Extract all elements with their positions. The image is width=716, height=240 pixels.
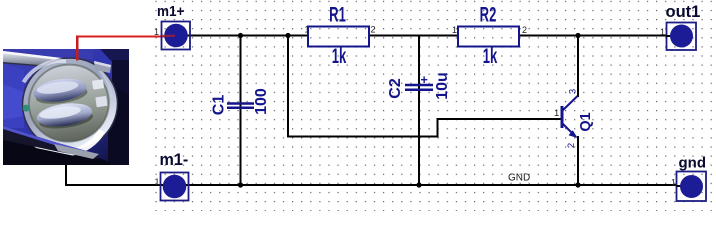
node junction C2 bottom — [416, 182, 421, 187]
terminal out1 — [660, 3, 700, 50]
svg-text:R1: R1 — [329, 2, 346, 26]
wire C1 vertical — [240, 35, 242, 185]
svg-text:GND: GND — [508, 173, 530, 184]
photo of electret microphone held by tweezers — [3, 49, 129, 165]
svg-text:gnd: gnd — [679, 155, 707, 172]
svg-text:m1+: m1+ — [157, 3, 184, 20]
svg-text:1: 1 — [155, 177, 160, 187]
wire Q1 collector up — [577, 35, 579, 97]
lower tweezer arm — [3, 126, 99, 159]
terminal m1- — [155, 150, 189, 201]
svg-text:100: 100 — [253, 88, 270, 115]
svg-text:1k: 1k — [332, 44, 347, 68]
wire jog from node A down and right to Q1 base — [288, 35, 561, 137]
wire from photo bottom to m1- — [65, 165, 177, 186]
svg-text:1: 1 — [304, 25, 309, 35]
node junction C1 bottom — [238, 182, 243, 187]
svg-text:C1: C1 — [211, 95, 228, 116]
capacitor C2 — [387, 72, 451, 100]
node junction collector top — [575, 33, 580, 38]
resistor R2 — [452, 2, 527, 68]
wire m1+ to R1 — [176, 35, 308, 37]
svg-text:1: 1 — [554, 108, 559, 119]
upper tweezer arm — [3, 51, 70, 69]
svg-text:1: 1 — [660, 27, 665, 37]
terminal m1+ — [154, 3, 190, 49]
transistor Q1 — [554, 89, 594, 148]
svg-text:+: + — [421, 73, 428, 87]
svg-text:R2: R2 — [480, 2, 497, 26]
solder blob top — [32, 76, 89, 107]
node junction C1 top — [238, 33, 243, 38]
svg-text:2: 2 — [566, 143, 577, 148]
mic capsule — [17, 52, 124, 158]
rim highlights — [31, 129, 104, 158]
white pads right — [92, 79, 104, 89]
node junction A top — [285, 33, 290, 38]
wire red from photo to m1+ — [76, 36, 176, 61]
svg-text:10u: 10u — [434, 72, 451, 100]
svg-text:2: 2 — [522, 25, 527, 35]
svg-text:Q1: Q1 — [578, 112, 594, 131]
svg-text:C2: C2 — [387, 78, 404, 99]
terminal gnd — [671, 155, 706, 202]
wire Q1 emitter down — [577, 136, 579, 185]
svg-text:out1: out1 — [666, 3, 701, 21]
svg-text:1: 1 — [452, 25, 457, 35]
svg-text:3: 3 — [568, 89, 579, 94]
resistor R1 — [304, 2, 375, 68]
metal tab top right of capsule — [94, 61, 111, 73]
svg-text:m1-: m1- — [160, 150, 189, 169]
capacitor C1 — [211, 88, 271, 115]
node junction emitter bottom — [575, 182, 580, 187]
green led dot — [22, 104, 30, 112]
wire R1 to R2 — [369, 35, 458, 37]
wire R2 to out1 — [520, 35, 666, 37]
svg-text:1: 1 — [154, 27, 159, 37]
svg-text:2: 2 — [371, 25, 376, 35]
wire C2 vertical — [418, 35, 420, 185]
svg-text:1: 1 — [671, 178, 676, 188]
svg-text:1k: 1k — [483, 44, 498, 68]
wire bottom rail m1- to gnd — [177, 184, 676, 186]
solder blob bottom — [35, 100, 94, 132]
